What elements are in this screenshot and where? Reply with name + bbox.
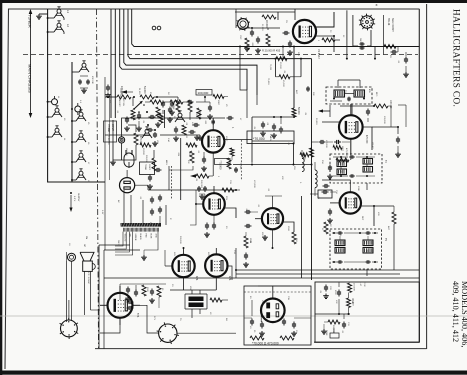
wire V4 top (213, 186, 215, 193)
svg-text:V1 6SA7: V1 6SA7 (317, 49, 320, 59)
divider labels (124, 234, 157, 242)
avc arrow resistor (190, 174, 213, 189)
resistor R17 (170, 100, 183, 104)
border frame bottom inner (314, 341, 419, 343)
svg-text:AVC: AVC (295, 90, 298, 95)
det parts (310, 184, 332, 198)
tube V9 5Y3 rect (100, 286, 140, 325)
capacitor C22 (167, 107, 173, 123)
label L10 (68, 243, 85, 247)
svg-text:L1: L1 (66, 10, 70, 14)
svg-text:MODELS 400, 406,: MODELS 400, 406, (460, 281, 467, 347)
wire V2 grid (322, 121, 339, 123)
tube V1 6SA7 (293, 20, 316, 43)
volume bar SW2 (121, 223, 162, 227)
svg-text:6SK7: 6SK7 (341, 146, 343, 152)
svg-text:AVC SW: AVC SW (122, 98, 125, 106)
tone control box (140, 162, 155, 175)
svg-text:TONE: TONE (144, 164, 146, 171)
capacitor Ct1 (323, 285, 331, 299)
capacitor C16 (327, 165, 333, 180)
svg-text:500,000: 500,000 (200, 180, 202, 189)
choke L9 (210, 298, 228, 302)
capacitor C35 (327, 209, 333, 224)
svg-text:470,000: 470,000 (353, 283, 355, 291)
antenna coil L1 (47, 7, 64, 20)
wire SW1 b (353, 15, 358, 46)
svg-text:2ND DET: 2ND DET (118, 98, 120, 107)
wire psu c (177, 332, 236, 334)
power transformer T6 (185, 294, 207, 309)
tube V7 6V6 a (172, 255, 194, 277)
capacitor C29 (158, 195, 162, 226)
svg-text:51,000: 51,000 (143, 86, 146, 94)
label L1 (66, 10, 70, 14)
svg-text:R 20,000 R 455: R 20,000 R 455 (262, 49, 281, 53)
chassis dash-dot vertical boundary (97, 9, 99, 348)
svg-text:PHONO: PHONO (125, 148, 127, 156)
wire right col x406 (405, 105, 407, 127)
tube V5 6SC7 (262, 208, 283, 229)
capacitor Cif1 (271, 124, 277, 139)
capacitor C49 (127, 300, 134, 304)
capacitor C34 (322, 190, 337, 194)
label V1 (317, 49, 320, 59)
tube V6 (340, 192, 361, 213)
resistor R7 (266, 28, 270, 46)
wire if vert x294 (293, 46, 295, 109)
label rg (269, 64, 271, 71)
tube V8 6V6 b (205, 254, 227, 276)
resistor R26 (392, 206, 396, 270)
resistor R21 (230, 148, 234, 160)
osc coil L5 (71, 110, 86, 122)
label padder (91, 76, 93, 84)
wire v2 cath (336, 139, 351, 160)
title MODELS line1 (460, 281, 467, 347)
svg-text:6.3V: 6.3V (101, 210, 103, 215)
resistor R13 BFO (373, 100, 391, 109)
wire chassis supply arrow (69, 192, 79, 212)
wire y105 ext (398, 104, 406, 106)
resistor R3 (176, 97, 180, 112)
wire bar up d (165, 205, 167, 225)
svg-text:SUPPLY: SUPPLY (77, 193, 79, 202)
shielded wire dash (171, 166, 173, 200)
capacitor V3c1 (197, 186, 207, 199)
wire tone a (315, 308, 350, 316)
wire V5 plate (283, 222, 294, 232)
svg-text:100,000: 100,000 (389, 100, 391, 109)
svg-text:409, 410, 411, 412: 409, 410, 411, 412 (451, 281, 460, 342)
wire x164 down (164, 110, 166, 128)
wire V6 grid (330, 202, 340, 204)
svg-text:6SQ7: 6SQ7 (225, 136, 227, 142)
svg-text:TUNER: TUNER (28, 14, 33, 28)
wire V3 down (212, 153, 214, 176)
svg-text:75,000: 75,000 (267, 78, 269, 85)
wire outlet (127, 170, 148, 190)
osc coil L8 (71, 169, 86, 181)
capacitor C21 (207, 102, 213, 119)
label 470000 (365, 135, 367, 144)
capacitor C31 (212, 215, 216, 230)
resistor R23 (222, 188, 240, 192)
resistor R37 (213, 95, 228, 99)
scan bar top edge (0, 0, 467, 3)
bandswitch SW1 (359, 2, 378, 30)
pilot lamp I2 (71, 103, 81, 115)
svg-text:22,000: 22,000 (265, 20, 268, 28)
svg-text:455 KC: 455 KC (371, 142, 373, 149)
wire bus 1 (132, 9, 420, 47)
label 5Y3 (136, 313, 139, 318)
ac outlet S2 (120, 178, 135, 193)
boxed label 100k (196, 90, 212, 96)
wire spk c (84, 271, 86, 315)
osc coil L6 (71, 131, 86, 143)
wire conv top (235, 9, 295, 28)
resistor R27 (250, 330, 264, 340)
scan bar bottom edge (0, 371, 467, 375)
wire y118 long (130, 117, 205, 119)
svg-text:TONE: TONE (325, 330, 327, 336)
svg-text:470,000: 470,000 (345, 148, 347, 157)
wire out right (228, 266, 233, 280)
capacitor C8 (250, 27, 254, 37)
wire phono b (122, 145, 136, 160)
wire V1 out (316, 35, 335, 37)
wire psu d (68, 300, 70, 320)
small parts cluster osc (124, 97, 201, 131)
svg-text:47K: 47K (281, 176, 283, 180)
capacitor C19 (395, 127, 401, 157)
svg-text:100,000: 100,000 (383, 116, 385, 124)
svg-text:HALLICRAFTERS CO.: HALLICRAFTERS CO. (452, 9, 462, 107)
wire if mid (252, 117, 293, 163)
ground osc (197, 135, 203, 140)
wire SW1 c (367, 30, 376, 60)
label PHONO INPUT (104, 121, 117, 142)
wire cluster kl (120, 284, 166, 308)
wire conv down (240, 60, 247, 90)
capacitor C36 (250, 300, 254, 326)
label bott chassis (107, 128, 110, 145)
wire v2 plate right (372, 126, 399, 128)
svg-text:10K: 10K (130, 116, 132, 120)
svg-text:33,000: 33,000 (142, 148, 144, 155)
svg-text:20,000: 20,000 (279, 62, 281, 69)
resistor R34 (142, 285, 148, 296)
svg-text:SEE FRONT: SEE FRONT (391, 18, 394, 32)
svg-text:6SC7: 6SC7 (203, 194, 205, 200)
svg-text:50,000: 50,000 (315, 118, 317, 125)
ground antenna (36, 14, 42, 19)
capacitor C12 (366, 109, 370, 123)
rf coil L4 (47, 126, 62, 138)
resistor R11 20,000 (275, 57, 303, 70)
label dashed row (262, 49, 281, 53)
svg-text:*70,000: *70,000 (239, 162, 241, 170)
wire v6 r (373, 205, 394, 207)
resistor R16 (150, 100, 163, 104)
capacitor CSW1 (359, 42, 364, 49)
resistor Rif (300, 153, 312, 157)
capacitor C9 (256, 37, 260, 44)
border frame right inner (418, 9, 420, 343)
capacitor C7 (152, 132, 158, 146)
wire V3 plate (223, 139, 252, 141)
capacitor V3top (211, 119, 215, 125)
trimmer C23 (175, 111, 185, 122)
tuner/main-chassis dashed boundary (23, 54, 418, 56)
svg-text:OSC: OSC (239, 35, 241, 40)
wire v4 to bar (190, 204, 196, 225)
component value labels (57, 20, 399, 334)
wire bus low 1 (236, 269, 419, 271)
svg-text:15,000: 15,000 (282, 80, 284, 87)
label det sw (118, 98, 125, 107)
svg-text:500,000: 500,000 (145, 155, 147, 163)
wire mid vertical x257 (256, 95, 258, 105)
svg-text:470,000: 470,000 (253, 180, 255, 188)
wire V5 down (272, 229, 274, 249)
svg-text:470K: 470K (155, 234, 157, 239)
capacitor C30 (204, 223, 210, 238)
IF transformer T4 (330, 154, 387, 183)
label Lt (359, 282, 365, 287)
wire row2 (105, 134, 200, 136)
capacitor C241 (234, 167, 238, 173)
resistor R311 (310, 148, 314, 157)
svg-text:MEG: MEG (165, 160, 167, 165)
wire V7V8 bot (170, 277, 216, 290)
osc coil T1 socket (236, 17, 250, 31)
divider cable (115, 232, 133, 255)
title MODELS line2 (451, 281, 460, 342)
wire box70 right (293, 144, 295, 165)
conv box wires (276, 59, 302, 77)
osc top coil L8b (72, 61, 89, 72)
wire bfo (340, 104, 391, 128)
svg-text:GREEN: GREEN (134, 234, 136, 241)
capacitor C17 (391, 47, 399, 55)
capacitor C37 (259, 322, 265, 337)
label speaker (87, 272, 89, 284)
small marks audio (140, 96, 206, 155)
label L2 (66, 24, 70, 28)
resistor R8 (322, 38, 340, 42)
wire x180 down (180, 138, 182, 200)
wire V2 plate (363, 127, 372, 150)
capacitor C5 (193, 123, 200, 127)
wire h long y186 (148, 189, 237, 204)
svg-text:DET: DET (361, 216, 363, 221)
switch contacts (124, 228, 159, 232)
wire right col (403, 52, 409, 77)
svg-text:TONE: TONE (351, 298, 353, 304)
wire SW1 d (383, 15, 385, 55)
wire V6 right (361, 206, 374, 226)
capacitor C18 (404, 57, 408, 64)
wire bar right (141, 232, 158, 260)
wire bus 6 (110, 9, 112, 118)
label footnote (252, 342, 279, 346)
capacitor C39 (291, 322, 297, 337)
svg-text:MAIN CHASSIS: MAIN CHASSIS (28, 64, 33, 93)
resistor R36 250M (156, 113, 163, 123)
resistor R22 (227, 158, 231, 169)
svg-text:47K 10K: 47K 10K (91, 76, 93, 84)
svg-text:YELLOW: YELLOW (124, 234, 126, 242)
resistor R5 (262, 15, 276, 28)
wire spk b (71, 261, 73, 320)
svg-text:51,000: 51,000 (138, 88, 140, 95)
loop coil L13 (315, 162, 317, 196)
svg-text:470,000: 470,000 (325, 140, 327, 148)
pilot lamp I3 (68, 253, 76, 261)
svg-text:L2: L2 (66, 24, 70, 28)
resistor R14 (336, 158, 349, 162)
dashed wire top box (244, 291, 311, 293)
terminal mark (152, 26, 161, 30)
wire bus 3 (124, 9, 257, 95)
capacitor C46 (125, 287, 131, 302)
svg-text:455 KC: 455 KC (195, 112, 197, 119)
tube V10 80 rect (261, 299, 285, 323)
resistor R1 (117, 86, 131, 99)
resistor R19 (197, 108, 201, 119)
title HALLICRAFTERS CO. (452, 9, 462, 107)
socket P2 (60, 318, 79, 339)
ground tone1 (321, 329, 327, 334)
wire V8 top (215, 248, 217, 254)
svg-text:x: x (376, 2, 378, 7)
svg-text:6V6: 6V6 (228, 276, 231, 281)
boxed label 70000b (247, 131, 295, 145)
wire osc bus (71, 62, 73, 182)
svg-text:+OSC,000: +OSC,000 (119, 88, 121, 99)
wire T3 leads (338, 80, 360, 88)
resistor R28 (280, 336, 294, 340)
wire if top (252, 116, 295, 118)
capacitor Cb (306, 86, 314, 96)
osc top padder C45 (78, 76, 90, 93)
wire V2 top (350, 104, 352, 115)
wire antenna bus (48, 9, 105, 182)
wire psu a (140, 305, 159, 333)
arrow row (121, 90, 133, 94)
wire left pair (105, 77, 110, 250)
wire psu b (100, 325, 120, 333)
capacitor C27 (201, 152, 207, 171)
wire V10 sides (244, 305, 311, 322)
wire bus 2 (128, 9, 312, 59)
svg-text:50,000: 50,000 (297, 107, 300, 115)
capacitor C2 (161, 101, 165, 115)
border frame bottom outer (95, 348, 427, 350)
resistor R9 (384, 45, 396, 49)
wire ant stub (39, 13, 48, 15)
wire bar up b (130, 195, 132, 225)
capacitor C26 (227, 116, 234, 120)
capacitor C11 (287, 41, 293, 56)
capacitor C33 (245, 224, 252, 228)
resistor R4 (188, 100, 192, 120)
wire bar up a (123, 190, 125, 225)
boundary marker arrow (29, 9, 33, 118)
V10 box (244, 286, 311, 345)
wire V5 grid (255, 218, 262, 220)
osc coil L7 (71, 151, 86, 163)
svg-text:PM: PM (85, 236, 87, 239)
wire V4 plate (225, 208, 236, 218)
wire osc row (105, 96, 178, 98)
resistor Rt2 (347, 298, 354, 308)
wire V4 grid (195, 203, 203, 205)
wire bus low 2 (236, 273, 400, 275)
resistor R25 (324, 222, 331, 234)
phono wires (113, 118, 136, 160)
wire T4 down (351, 139, 367, 190)
tube V4 6SC7 (203, 193, 225, 215)
label MAIN CHASSIS (28, 64, 33, 93)
ground phono (110, 160, 116, 165)
ground V5 (262, 235, 268, 240)
capacitor C25 (155, 168, 162, 172)
wire V10 top (258, 286, 290, 299)
svg-text:6SC7: 6SC7 (261, 232, 263, 238)
svg-text:RED: RED (144, 234, 146, 239)
svg-text:47K: 47K (191, 122, 193, 126)
resistor R21b (188, 151, 194, 163)
svg-text:6.3 V.: 6.3 V. (73, 196, 75, 202)
resistor Rt1 (348, 283, 355, 293)
row 142 (312, 140, 351, 157)
wire x169 down (169, 166, 193, 190)
IF transformer T5 (330, 229, 387, 269)
wire V3 top (205, 118, 225, 130)
trimmer C6 (142, 127, 152, 138)
svg-text:BLUE: BLUE (150, 234, 152, 240)
capacitor C20 (187, 100, 194, 104)
rf coil L3 (47, 106, 62, 118)
loop coil L12 (302, 150, 304, 172)
capacitor C1 (105, 85, 111, 98)
capacitor C47 (134, 285, 138, 297)
capacitor C10 (283, 31, 290, 35)
capacitor Ct2 (334, 283, 341, 297)
scan crease line (0, 315, 467, 317)
svg-text:500,000: 500,000 (179, 236, 181, 244)
capacitor C14 (260, 122, 268, 137)
label 46 (231, 127, 234, 129)
svg-text:*70,000: *70,000 (253, 137, 265, 141)
wire bar up c (142, 200, 144, 225)
tube V2 6SK7 (339, 115, 363, 139)
svg-text:1 M: 1 M (167, 138, 169, 142)
wire SW1 a (346, 10, 348, 59)
junction (133, 96, 158, 98)
wire spk d (91, 271, 101, 310)
wire V7 top (183, 247, 185, 255)
wire bus low 3 (104, 277, 419, 279)
boxed label 70000 (215, 159, 231, 171)
capacitor C48 (149, 289, 155, 304)
dashed shield x241 (240, 140, 242, 180)
resistor R10 50,000 (292, 107, 300, 117)
svg-text:70,000: 70,000 (269, 64, 271, 71)
